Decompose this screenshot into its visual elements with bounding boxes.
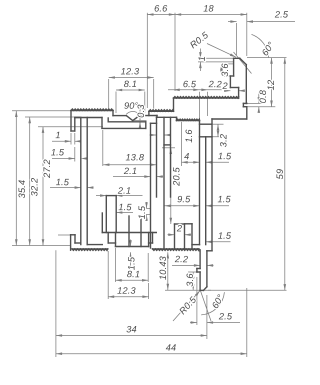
svg-text:2.2: 2.2 <box>174 254 188 264</box>
svg-text:6.6: 6.6 <box>154 3 168 13</box>
svg-text:8.1: 8.1 <box>127 269 140 279</box>
svg-text:1: 1 <box>55 130 60 140</box>
svg-text:2.1: 2.1 <box>123 166 137 176</box>
svg-text:35.4: 35.4 <box>17 180 27 199</box>
svg-text:6.5: 6.5 <box>183 79 197 89</box>
svg-text:1.5: 1.5 <box>118 202 132 212</box>
svg-text:3.6: 3.6 <box>220 63 230 77</box>
svg-text:1.5: 1.5 <box>51 147 65 157</box>
svg-text:9.5: 9.5 <box>177 194 191 204</box>
svg-text:44: 44 <box>166 343 177 353</box>
svg-text:0.8: 0.8 <box>258 89 268 103</box>
svg-text:2.1: 2.1 <box>117 186 131 196</box>
svg-text:2.2: 2.2 <box>208 79 222 89</box>
svg-text:1: 1 <box>197 56 207 61</box>
svg-text:59: 59 <box>275 169 285 180</box>
svg-text:1.5: 1.5 <box>127 256 137 270</box>
svg-text:12.3: 12.3 <box>121 66 140 76</box>
svg-text:10.43: 10.43 <box>158 255 168 280</box>
svg-text:2.5: 2.5 <box>274 9 289 19</box>
svg-text:3.2: 3.2 <box>218 134 228 147</box>
svg-text:20.5: 20.5 <box>171 166 181 186</box>
svg-text:1.5: 1.5 <box>218 194 232 204</box>
svg-text:32.2: 32.2 <box>30 178 40 197</box>
svg-text:34: 34 <box>126 324 137 334</box>
svg-text:8.1: 8.1 <box>124 79 137 89</box>
svg-text:2.5: 2.5 <box>218 311 233 321</box>
svg-text:2: 2 <box>176 223 182 233</box>
svg-text:18: 18 <box>203 3 214 13</box>
svg-text:1.5: 1.5 <box>218 231 232 241</box>
svg-text:1.6: 1.6 <box>184 129 194 143</box>
svg-text:27.2: 27.2 <box>42 159 52 179</box>
svg-text:13.8: 13.8 <box>125 152 144 162</box>
svg-text:3.6: 3.6 <box>185 273 195 287</box>
svg-text:4: 4 <box>184 151 189 161</box>
svg-text:2: 2 <box>222 81 228 91</box>
svg-text:0.3: 0.3 <box>136 104 146 118</box>
svg-text:12: 12 <box>266 80 276 91</box>
svg-text:1.5: 1.5 <box>56 177 70 187</box>
svg-text:1.5: 1.5 <box>137 205 147 219</box>
svg-text:12.3: 12.3 <box>117 286 136 296</box>
svg-text:1.5: 1.5 <box>218 151 232 161</box>
